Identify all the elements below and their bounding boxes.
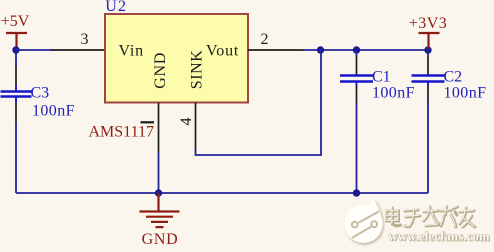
wire GND pin to rail	[158, 152, 160, 193]
pin 1 number label (rotated)	[141, 121, 155, 123]
svg-text:100nF: 100nF	[444, 84, 487, 101]
svg-text:3: 3	[81, 31, 89, 48]
capacitor C3	[1, 50, 32, 122]
pin 2 (Vout)	[248, 49, 303, 51]
junction node C1 top	[353, 46, 360, 53]
watermark logo elecfans	[344, 200, 384, 245]
capacitor C2	[412, 50, 445, 103]
junction node Vout/SINK loop	[317, 46, 324, 53]
svg-text:www.elecfans.com: www.elecfans.com	[389, 230, 491, 244]
svg-text:GND: GND	[152, 52, 169, 89]
svg-text:C3: C3	[31, 85, 50, 102]
svg-text:AMS1117: AMS1117	[89, 124, 155, 141]
junction node C2/+3V3	[424, 46, 431, 53]
svg-text:+5V: +5V	[1, 13, 30, 30]
wire C2 to ground rail	[427, 103, 429, 193]
wire ground rail	[16, 192, 428, 194]
wire SINK to Vout loop	[196, 50, 322, 155]
wire C1 to ground rail	[356, 103, 358, 193]
pin 1 (GND) vertical	[158, 103, 160, 153]
svg-text:C1: C1	[372, 69, 391, 86]
pin 3 (Vin)	[51, 49, 105, 51]
svg-text:Vin: Vin	[119, 43, 144, 60]
capacitor C1	[340, 50, 373, 103]
wire C3 to ground rail	[15, 122, 17, 193]
svg-text:100nF: 100nF	[372, 84, 415, 101]
svg-text:C2: C2	[444, 69, 463, 86]
svg-text:4: 4	[178, 118, 195, 126]
svg-text:+3V3: +3V3	[409, 15, 448, 32]
wire +5V net horizontal	[16, 49, 52, 51]
power +3V3	[409, 15, 448, 49]
junction node GND rail center	[155, 189, 162, 196]
regulator U2 body	[105, 14, 248, 103]
ground symbol	[140, 193, 180, 227]
power +5V	[1, 13, 30, 49]
svg-text:100nF: 100nF	[32, 103, 75, 120]
svg-text:U2: U2	[105, 0, 127, 15]
wire +3V3 net horizontal	[303, 49, 429, 51]
svg-text:Vout: Vout	[206, 43, 239, 60]
junction node +5V	[12, 46, 19, 53]
junction node C1 bottom	[353, 189, 360, 196]
svg-text:2: 2	[261, 31, 269, 48]
svg-text:GND: GND	[142, 231, 179, 248]
pin 4 (SINK) vertical	[195, 103, 197, 151]
watermark url text	[389, 230, 492, 245]
watermark chinese characters	[387, 207, 476, 227]
svg-text:SINK: SINK	[189, 50, 206, 90]
